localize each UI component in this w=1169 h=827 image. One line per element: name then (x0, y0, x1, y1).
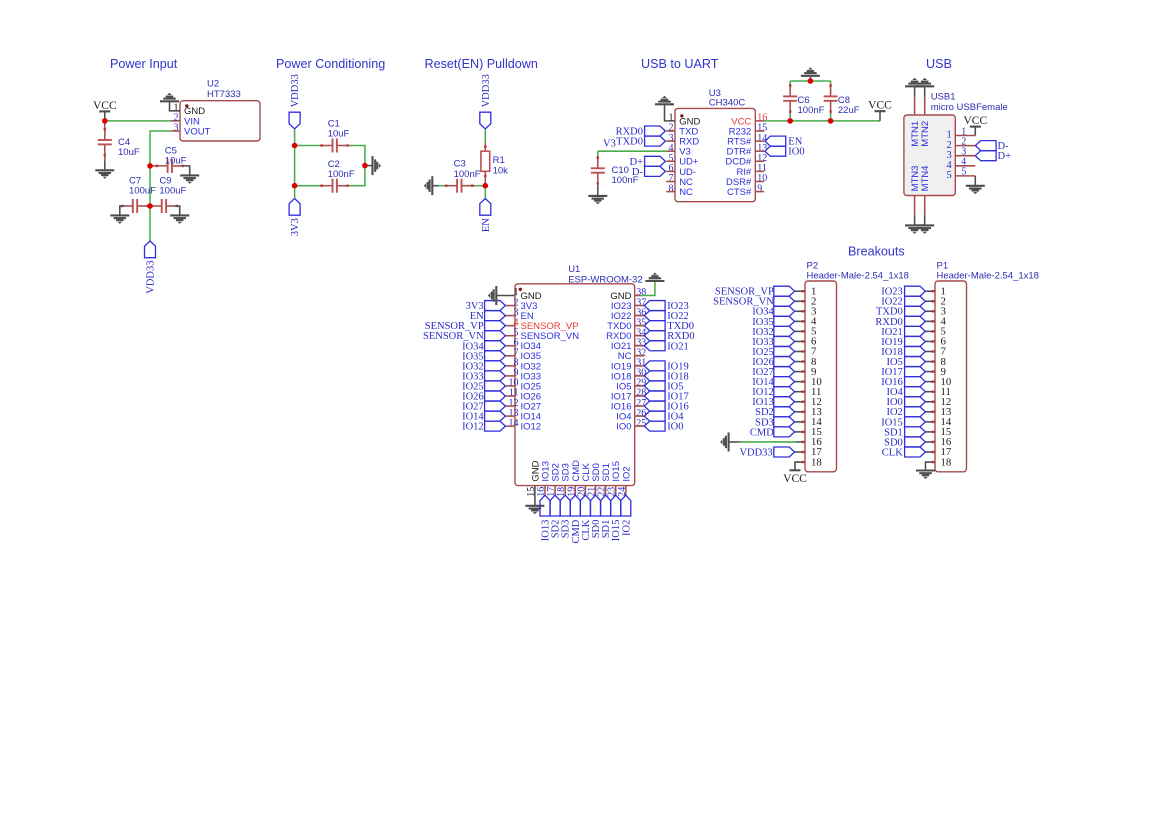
svg-text:10uF: 10uF (118, 147, 140, 158)
svg-text:IO0: IO0 (788, 147, 804, 158)
svg-text:Reset(EN) Pulldown: Reset(EN) Pulldown (425, 57, 538, 71)
svg-text:D-: D- (632, 167, 644, 178)
svg-text:18: 18 (941, 456, 952, 468)
svg-text:100uF: 100uF (129, 186, 156, 197)
svg-text:IO12: IO12 (462, 422, 484, 433)
svg-text:VCC: VCC (783, 473, 807, 485)
svg-text:micro USBFemale: micro USBFemale (931, 102, 1008, 113)
svg-text:VCC: VCC (963, 115, 987, 127)
svg-text:CLK: CLK (882, 447, 903, 458)
svg-text:VDD33: VDD33 (146, 261, 157, 294)
svg-text:MTN4: MTN4 (920, 166, 931, 192)
svg-text:ESP-WROOM-32: ESP-WROOM-32 (568, 274, 642, 285)
svg-text:Power Conditioning: Power Conditioning (276, 57, 385, 71)
svg-text:5: 5 (961, 167, 966, 178)
svg-text:100nF: 100nF (798, 105, 825, 116)
svg-text:100nF: 100nF (454, 169, 481, 180)
svg-text:V3: V3 (603, 138, 616, 149)
svg-text:8: 8 (669, 183, 674, 194)
svg-text:Header-Male-2.54_1x18: Header-Male-2.54_1x18 (937, 271, 1039, 282)
svg-text:IO2: IO2 (621, 520, 632, 536)
svg-text:TXD0: TXD0 (616, 137, 643, 148)
svg-text:IO0: IO0 (616, 422, 631, 433)
svg-text:CTS#: CTS# (727, 187, 752, 198)
svg-text:VDD33: VDD33 (481, 74, 492, 107)
svg-text:VCC: VCC (868, 100, 892, 112)
svg-text:100uF: 100uF (159, 186, 186, 197)
svg-text:CMD: CMD (750, 427, 774, 438)
svg-text:3: 3 (174, 123, 179, 134)
svg-text:VCC: VCC (93, 100, 117, 112)
svg-text:Power Input: Power Input (110, 57, 178, 71)
svg-text:VOUT: VOUT (184, 126, 211, 137)
svg-text:10uF: 10uF (165, 155, 187, 166)
svg-text:22uF: 22uF (838, 105, 860, 116)
svg-text:USB to UART: USB to UART (641, 57, 719, 71)
svg-text:5: 5 (947, 170, 952, 181)
svg-text:14: 14 (509, 418, 519, 429)
svg-text:10k: 10k (493, 165, 509, 176)
svg-text:Header-Male-2.54_1x18: Header-Male-2.54_1x18 (807, 271, 909, 282)
svg-text:VDD33: VDD33 (739, 447, 772, 458)
svg-text:100nF: 100nF (328, 169, 355, 180)
svg-text:IO12: IO12 (521, 422, 542, 433)
svg-text:IO2: IO2 (621, 466, 632, 481)
svg-text:USB1: USB1 (931, 92, 956, 103)
svg-text:18: 18 (811, 456, 822, 468)
svg-text:NC: NC (679, 187, 693, 198)
svg-text:Breakouts: Breakouts (848, 245, 905, 259)
svg-text:USB: USB (926, 57, 952, 71)
svg-text:VDD33: VDD33 (290, 74, 301, 107)
svg-text:EN: EN (481, 218, 492, 232)
svg-text:9: 9 (757, 183, 762, 194)
svg-text:HT7333: HT7333 (207, 89, 241, 100)
svg-text:MTN2: MTN2 (920, 121, 931, 147)
svg-text:D+: D+ (998, 151, 1012, 162)
svg-text:1: 1 (669, 113, 674, 124)
svg-text:IO21: IO21 (667, 341, 689, 352)
svg-text:3V3: 3V3 (290, 218, 301, 236)
svg-text:CH340C: CH340C (709, 98, 746, 109)
svg-text:IO0: IO0 (667, 422, 683, 433)
svg-text:10uF: 10uF (328, 128, 350, 139)
